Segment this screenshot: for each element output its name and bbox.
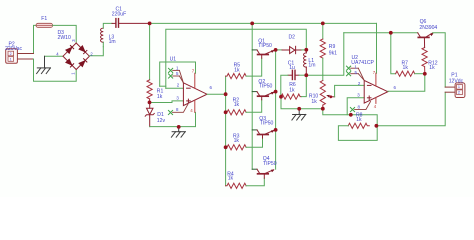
wire R9 bottom lead bbox=[322, 58, 324, 75]
svg-text:1k: 1k bbox=[228, 176, 234, 182]
svg-text:TIP50: TIP50 bbox=[260, 121, 274, 127]
resistor R12 bbox=[422, 48, 427, 67]
resistor R9 bbox=[320, 39, 325, 58]
R10 wiper arrow bbox=[326, 95, 334, 98]
svg-text:12Vdc: 12Vdc bbox=[449, 78, 464, 84]
junction U1 ground tap bbox=[177, 125, 181, 129]
svg-text:220Vac: 220Vac bbox=[5, 46, 22, 52]
junction R6 left / C1 1u left bbox=[279, 95, 283, 99]
junction U2 pin3 riser node bbox=[349, 113, 353, 117]
op-amp U1 plus sign bbox=[187, 99, 191, 103]
wire R9 top lead bbox=[322, 23, 324, 39]
op-amp U1 pin7 tick bbox=[194, 73, 196, 88]
junction Q2 emitter bbox=[274, 90, 278, 94]
svg-text:9k1: 9k1 bbox=[329, 51, 337, 57]
svg-text:1k: 1k bbox=[311, 99, 317, 105]
resistor R1 bbox=[147, 80, 152, 99]
svg-text:220uF: 220uF bbox=[112, 11, 126, 17]
resistor R2 bbox=[226, 110, 247, 115]
op-amp U2 plus sign bbox=[367, 96, 371, 100]
junction R2 on base bus bbox=[224, 110, 228, 114]
inductor L3 bbox=[101, 28, 104, 42]
wire R6 left to ground rail bbox=[281, 97, 323, 109]
svg-text:1k: 1k bbox=[157, 94, 163, 100]
svg-text:1k: 1k bbox=[234, 138, 240, 144]
resistor R5 bbox=[226, 74, 247, 79]
junction Q3 emitter bbox=[274, 128, 278, 132]
junction C1 output on top rail bbox=[148, 22, 152, 26]
svg-text:D2: D2 bbox=[289, 35, 296, 41]
svg-text:TIP50: TIP50 bbox=[259, 84, 273, 90]
op-amp U2 pin4 tick bbox=[375, 97, 377, 103]
wire Q6 rail bbox=[344, 32, 418, 34]
capacitor C1 1u bbox=[288, 70, 299, 79]
wire L1 leads bbox=[305, 50, 307, 53]
svg-text:1k: 1k bbox=[429, 65, 435, 71]
wire R7 riser bbox=[391, 33, 396, 74]
resistor R6 bbox=[281, 94, 301, 99]
wire R7 to node bbox=[415, 73, 425, 75]
diode D2 bbox=[282, 46, 302, 53]
op-amp U1 pin5 no-connect bbox=[169, 74, 184, 83]
resistor R8 bbox=[348, 123, 369, 128]
svg-text:1k: 1k bbox=[234, 67, 240, 73]
wire R1 supply drop bbox=[149, 23, 151, 79]
wire wiper to U2 pin2 bbox=[335, 85, 365, 96]
wire D2 cathode to L1 top node bbox=[302, 49, 307, 51]
svg-text:1k: 1k bbox=[403, 65, 409, 71]
svg-text:TIP50: TIP50 bbox=[263, 161, 277, 167]
svg-text:1: 1 bbox=[458, 85, 460, 89]
op-amp U2 triangle bbox=[364, 80, 388, 103]
wire R5 to Q1 base bbox=[246, 58, 262, 76]
junction node L1 top / D2 cathode bbox=[304, 48, 308, 52]
potentiometer R10 bbox=[320, 81, 325, 106]
wire F1 to bridge top bbox=[53, 25, 77, 43]
transistor Q3 bbox=[252, 130, 274, 138]
wire U1 ground net bbox=[150, 112, 196, 126]
wire R10 top lead bbox=[322, 75, 324, 80]
transistor Q6 bbox=[418, 33, 434, 48]
op-amp U1 pin1 no-connect bbox=[169, 68, 184, 83]
svg-text:1m: 1m bbox=[109, 39, 116, 45]
wire emitter bus bbox=[275, 50, 277, 169]
resistor R4 bbox=[226, 183, 247, 188]
junction Q1 emitter bbox=[274, 48, 278, 52]
wire U1 pin7 box jog bbox=[160, 85, 166, 87]
wire Q1 emitter to D2 bbox=[276, 49, 282, 51]
wire R1 bottom to node bbox=[149, 99, 151, 103]
junction collector column on top rail bbox=[250, 22, 254, 26]
wire top rail bbox=[150, 22, 377, 24]
zener diode D1 bbox=[145, 102, 154, 126]
junction R7 riser on Q6 rail bbox=[389, 31, 393, 35]
svg-text:2N3904: 2N3904 bbox=[419, 25, 437, 31]
op-amp U2 pin1 no-connect bbox=[347, 66, 365, 80]
svg-text:1k: 1k bbox=[289, 87, 295, 93]
junction R10 bottom bbox=[321, 107, 325, 111]
wire collector column bbox=[251, 23, 253, 169]
ground symbol (AC input side) bbox=[37, 56, 51, 73]
wire P2 pin2 to F1 riser bbox=[34, 25, 37, 53]
junction node R1 / D1 / U1 pin3 bbox=[148, 101, 152, 105]
wire R10 bottom to R8 node bbox=[323, 109, 377, 126]
wire C1 1u right lead to L1 node bbox=[299, 74, 306, 76]
inductor L1 bbox=[304, 53, 307, 67]
wire U1 output bbox=[207, 93, 226, 95]
junction U1 output on base bus bbox=[224, 92, 228, 96]
svg-text:D1: D1 bbox=[157, 112, 164, 118]
wire bridge right to L3 bbox=[89, 47, 103, 56]
junction R8 right node bbox=[375, 124, 379, 128]
junction R3 on base bus bbox=[224, 145, 228, 149]
op-amp U2 pin7 tick bbox=[375, 73, 377, 86]
wire R12 bottom lead bbox=[424, 67, 426, 74]
junction R9 on top rail bbox=[321, 22, 325, 26]
capacitor C1 220uF bbox=[112, 19, 150, 28]
connector P2 body bbox=[6, 49, 18, 64]
op-amp U1 pin4 tick bbox=[194, 100, 196, 112]
bridge diode top-right bbox=[79, 46, 87, 54]
wire C1 1u left corner bbox=[281, 75, 288, 97]
junction output ground tap bbox=[297, 107, 301, 111]
transistor Q1 bbox=[252, 50, 274, 58]
wire U2 pin3 riser bbox=[347, 98, 364, 115]
wire P2 pin1 to bridge bottom bbox=[34, 59, 77, 81]
wire L3 bottom lead bbox=[102, 42, 104, 46]
op-amp U1 triangle bbox=[183, 83, 207, 106]
junction node L1 bottom / C1 1u bbox=[304, 73, 308, 77]
fuse F1 bbox=[36, 23, 53, 27]
wire feedback rail y29 bbox=[166, 29, 306, 88]
wire R3 to Q3 base bbox=[246, 138, 262, 147]
wire U2 output to R12 node bbox=[388, 74, 425, 92]
bridge rectifier D3 diamond outline bbox=[63, 43, 89, 70]
svg-text:1: 1 bbox=[10, 58, 12, 62]
svg-text:1u: 1u bbox=[289, 65, 295, 71]
wire U1 pin7 box bbox=[160, 62, 196, 86]
op-amp U1 pin8 no-connect bbox=[168, 104, 188, 115]
wire R6 right riser to L1 node bbox=[302, 75, 307, 96]
connector P2 pin2 stub bbox=[17, 53, 33, 55]
wire Q6 emitter to P1 pin1 bbox=[433, 33, 446, 87]
svg-text:1k: 1k bbox=[356, 117, 362, 123]
connector P1 body bbox=[455, 83, 465, 98]
wire bridge left to ground bbox=[45, 55, 64, 57]
wire R8 bypass loop bbox=[338, 126, 377, 141]
transistor Q2 bbox=[252, 92, 274, 100]
svg-text:2: 2 bbox=[10, 52, 12, 56]
svg-text:2W10: 2W10 bbox=[58, 35, 71, 41]
svg-text:1k: 1k bbox=[234, 102, 240, 108]
connector P1 stubs bbox=[445, 86, 455, 88]
transistor Q4 bbox=[252, 169, 274, 178]
wire L1 node to Q6 rail riser bbox=[306, 33, 344, 75]
resistor R7 bbox=[396, 71, 415, 76]
ground symbol (output filter) bbox=[292, 109, 306, 120]
svg-text:1m: 1m bbox=[308, 62, 315, 68]
svg-text:U1: U1 bbox=[170, 57, 177, 63]
svg-text:TIP50: TIP50 bbox=[258, 43, 272, 49]
svg-text:F1: F1 bbox=[41, 16, 47, 22]
wire U1 pin2 lead bbox=[166, 87, 184, 89]
op-amp U2 pin8 no-connect bbox=[350, 102, 370, 112]
svg-text:R9: R9 bbox=[329, 44, 336, 50]
wire L3 top to C1 bbox=[103, 23, 112, 28]
wire reference node to U1 pin3 bbox=[150, 101, 184, 103]
wire R2 to Q2 base bbox=[246, 100, 262, 113]
svg-text:2: 2 bbox=[458, 90, 460, 94]
wire R4 to Q4 base bbox=[246, 178, 264, 186]
wire U2 pin7 drop from top rail bbox=[376, 23, 378, 73]
bridge diode bottom-right bbox=[79, 59, 87, 67]
svg-text:12v: 12v bbox=[157, 118, 166, 124]
resistor R3 bbox=[226, 145, 247, 150]
bridge diode bottom-left bbox=[66, 59, 74, 67]
ground symbol (U1 reference) bbox=[171, 127, 185, 137]
op-amp U2 minus sign bbox=[367, 84, 371, 86]
wire R8 node to P1 pin2 bbox=[377, 92, 445, 126]
wire base drive bus bbox=[225, 76, 227, 186]
connector P2 pin1 stub bbox=[17, 58, 33, 60]
wire R10 bottom lead bbox=[322, 105, 324, 109]
op-amp U1 minus sign bbox=[187, 87, 191, 89]
op-amp U2 pin5 no-connect bbox=[347, 72, 365, 81]
bridge diode top-left bbox=[66, 46, 74, 54]
junction R7 / R12 / U2 output bbox=[423, 72, 427, 76]
